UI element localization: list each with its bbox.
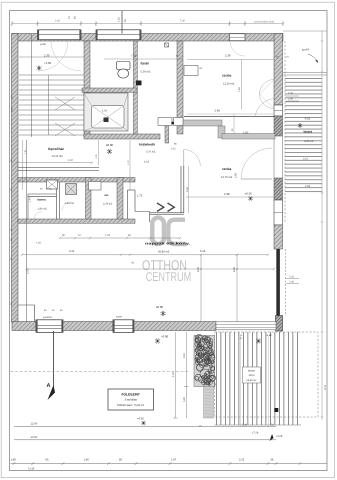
svg-text:1.40: 1.40	[10, 107, 13, 112]
svg-text:13,76 m2: 13,76 m2	[221, 176, 233, 179]
bottom wall seg2	[63, 322, 113, 331]
staircase steps	[19, 75, 84, 135]
svg-text:+0.00: +0.00	[161, 335, 169, 339]
radiator szoba1	[184, 66, 198, 76]
corner pillar	[276, 316, 283, 332]
dim x241.5	[241, 60, 243, 110]
kitchen wall step	[181, 120, 275, 139]
kamra right wall	[56, 184, 58, 219]
door arc szoba2	[184, 150, 201, 167]
boiler square	[47, 180, 58, 189]
svg-text:1.50: 1.50	[238, 87, 241, 92]
svg-text:terasz: terasz	[304, 130, 313, 134]
terasz bottom decking	[215, 332, 302, 425]
mosdo right wall	[86, 178, 92, 223]
svg-text:1.86: 1.86	[11, 459, 17, 462]
svg-text:pm90: pm90	[116, 316, 122, 319]
svg-text:-0.02: -0.02	[304, 118, 311, 121]
top dim line	[12, 23, 283, 25]
L step left	[18, 305, 35, 322]
wc right wall	[117, 178, 123, 223]
svg-text:6,60 m2: 6,60 m2	[304, 140, 314, 143]
svg-text:5.20: 5.20	[183, 397, 186, 402]
foldszint box	[108, 389, 154, 410]
svg-text:17.28: 17.28	[252, 432, 259, 435]
door arc pier	[255, 98, 276, 117]
bottom dim lines	[14, 426, 276, 428]
terasz side decking	[285, 76, 322, 193]
svg-text:14.35: 14.35	[28, 468, 35, 471]
svg-text:1,96 m2: 1,96 m2	[38, 208, 48, 211]
svg-text:2.38: 2.38	[224, 192, 230, 196]
szoba2 left wall	[180, 166, 182, 213]
svg-text:1.50: 1.50	[288, 92, 294, 95]
terasz label box	[243, 367, 261, 383]
svg-text:fürdő: fürdő	[141, 62, 149, 66]
sliding door	[216, 322, 276, 330]
wc outer wall	[127, 190, 129, 222]
svg-text:2.35: 2.35	[118, 17, 121, 22]
svg-text:1.78: 1.78	[105, 234, 110, 237]
svg-text:terasz: terasz	[248, 370, 256, 373]
svg-text:4.00: 4.00	[197, 266, 200, 272]
dim line y255	[22, 254, 268, 256]
kamra door	[34, 219, 42, 223]
svg-text:13.00: 13.00	[31, 436, 38, 439]
svg-text:2.40: 2.40	[289, 281, 294, 284]
svg-text:2.55: 2.55	[186, 187, 189, 192]
terrace door swing	[241, 148, 272, 179]
svg-text:2.98: 2.98	[305, 185, 311, 188]
duct block	[136, 81, 142, 86]
rooms row bottom wall	[18, 219, 135, 223]
svg-text:szoba: szoba	[222, 167, 232, 171]
right wall pier 2	[274, 178, 283, 200]
left vertical dim line	[22, 140, 24, 190]
svg-text:1.52: 1.52	[172, 372, 175, 377]
shower square	[84, 93, 128, 131]
stair landing line	[19, 56, 84, 58]
chevron arrows	[157, 203, 174, 211]
marker square	[274, 408, 278, 412]
dim line y269	[27, 268, 275, 270]
svg-text:4.00: 4.00	[233, 266, 236, 272]
svg-text:4.70: 4.70	[324, 384, 327, 390]
svg-text:pm90: pm90	[40, 43, 47, 46]
terasz boundary lines	[283, 71, 327, 73]
svg-text:5.18: 5.18	[200, 250, 206, 253]
svg-text:±0.00: ±0.00	[106, 143, 113, 147]
svg-text:kamra: kamra	[38, 198, 47, 202]
svg-text:1.86: 1.86	[84, 459, 90, 462]
corridor wall	[165, 125, 169, 143]
svg-text:+4.60: +4.60	[266, 334, 273, 337]
right wall window 2	[274, 200, 283, 225]
watermark OC logo	[152, 218, 186, 244]
svg-text:+0.05: +0.05	[137, 418, 144, 421]
mosdo door arc	[62, 202, 71, 211]
wc fixture	[89, 182, 102, 191]
svg-text:4.32: 4.32	[69, 250, 75, 253]
washing machine	[66, 184, 77, 195]
svg-text:2.41: 2.41	[289, 276, 294, 279]
svg-text:2.10: 2.10	[303, 158, 309, 161]
svg-text:±0.05: ±0.05	[245, 193, 252, 196]
terrace door opening	[273, 136, 275, 178]
left wall	[12, 34, 19, 323]
svg-text:nappali étk.kony.: nappali étk.kony.	[145, 242, 190, 246]
svg-text:4.02: 4.02	[68, 159, 73, 162]
tall dark window frame	[276, 249, 280, 316]
svg-text:1.15: 1.15	[95, 154, 98, 159]
right wall lower	[274, 225, 283, 249]
svg-text:2.12: 2.12	[171, 148, 176, 151]
mid wall y134	[84, 134, 160, 139]
svg-text:3.70: 3.70	[27, 269, 30, 274]
right wall pier	[274, 116, 283, 136]
svg-text:FÖLDSZINT: FÖLDSZINT	[121, 393, 140, 397]
svg-text:2.39: 2.39	[225, 54, 231, 58]
svg-text:85: 85	[119, 459, 122, 462]
dashed boundary	[11, 371, 191, 373]
gravel strip	[204, 387, 214, 419]
svg-text:3.98: 3.98	[215, 110, 221, 113]
szoba divider line	[184, 116, 274, 118]
svg-text:7.42: 7.42	[131, 54, 137, 58]
svg-text:12.60: 12.60	[31, 423, 38, 426]
right wall upper	[274, 34, 283, 106]
vertical dim x186	[185, 332, 187, 418]
bottom window D2	[113, 320, 134, 333]
svg-text:szoba: szoba	[222, 74, 232, 78]
dim line y114	[187, 113, 274, 115]
dim 2.41 right	[286, 278, 299, 280]
bottom wall seg3	[134, 322, 216, 331]
svg-text:CENTRUM: CENTRUM	[146, 269, 192, 284]
svg-text:2.00: 2.00	[235, 172, 238, 178]
doorway step	[135, 212, 150, 223]
svg-text:+0.05: +0.05	[276, 435, 283, 438]
toilet	[117, 62, 131, 70]
svg-text:2.42: 2.42	[55, 20, 60, 23]
svg-text:56,80 m2: 56,80 m2	[158, 251, 170, 254]
svg-text:pm90/tm: pm90/tm	[43, 316, 52, 319]
section line A	[53, 331, 55, 390]
svg-text:közlekedő: közlekedő	[139, 143, 155, 147]
svg-text:2.30: 2.30	[44, 54, 50, 58]
stair hall right wall	[84, 41, 90, 137]
dim x130	[129, 140, 131, 190]
bath divider wall	[82, 88, 137, 92]
window W2	[96, 30, 141, 40]
svg-text:1.31: 1.31	[24, 149, 27, 154]
svg-text:1.90: 1.90	[243, 132, 249, 135]
mark bottom right arrow	[270, 434, 274, 441]
window W3	[230, 34, 246, 41]
left inner face	[26, 140, 28, 322]
bottom dim row	[11, 463, 328, 465]
lepcsohaz south wall	[18, 167, 99, 169]
W3 arc	[230, 41, 245, 56]
bath right wall	[177, 41, 183, 134]
svg-text:±0.00: ±0.00	[156, 305, 163, 309]
svg-text:2,78 m2: 2,78 m2	[103, 203, 113, 206]
svg-text:1.43: 1.43	[29, 197, 32, 202]
dim line x175	[174, 332, 176, 418]
svg-text:A: A	[47, 383, 51, 389]
svg-text:1.97: 1.97	[171, 459, 177, 462]
svg-text:1.70: 1.70	[127, 160, 130, 165]
chimney mark	[165, 43, 169, 47]
vertical dims x201 x237	[200, 255, 202, 322]
svg-text:49/13: 49/13	[249, 374, 256, 377]
svg-text:lépcsőház: lépcsőház	[48, 147, 64, 151]
svg-text:56,60 m2: 56,60 m2	[247, 379, 258, 382]
section mark top	[121, 11, 123, 34]
window W1	[38, 30, 82, 40]
svg-text:1.18: 1.18	[144, 161, 150, 164]
kitchen counter	[158, 118, 172, 126]
bottom wall seg1	[12, 322, 36, 331]
svg-text:1.75: 1.75	[137, 195, 143, 198]
bottom door D1	[36, 320, 63, 333]
landing door arcs	[38, 41, 68, 71]
svg-text:.39: .39	[270, 459, 274, 462]
dim x188	[188, 166, 190, 213]
dim 4.02 line	[18, 162, 92, 164]
svg-text:12,16 m2: 12,16 m2	[223, 83, 235, 86]
dim line y238	[60, 237, 180, 239]
svg-text:1.00: 1.00	[10, 95, 13, 100]
svg-text:1.28: 1.28	[36, 242, 41, 245]
stair cross marks	[55, 97, 75, 136]
svg-text:+1.50: +1.50	[44, 61, 52, 65]
svg-text:2.25: 2.25	[239, 459, 245, 462]
svg-text:85: 85	[46, 459, 49, 462]
svg-text:szomszédos lakás: szomszédos lakás	[254, 21, 275, 24]
door arcs szoba1 terrace door	[260, 80, 275, 95]
svg-text:3-as lakás: 3-as lakás	[125, 399, 138, 402]
top wall	[12, 34, 283, 42]
terasz dashed border	[215, 332, 319, 417]
right wall window	[274, 105, 283, 116]
svg-text:5,36 m2: 5,36 m2	[141, 71, 151, 74]
kamra left wall	[27, 194, 29, 219]
kamra top wall	[28, 193, 57, 195]
svg-text:1.50: 1.50	[102, 110, 108, 113]
svg-text:2.48: 2.48	[242, 424, 247, 427]
svg-text:2.10: 2.10	[183, 353, 186, 358]
mark 0.00 bottom	[155, 338, 160, 343]
svg-text:wc.: wc.	[104, 193, 110, 197]
dim x98.5	[98, 140, 100, 165]
rooms row top wall	[18, 178, 135, 183]
planting bed	[194, 336, 215, 387]
svg-text:5,70 m2: 5,70 m2	[146, 151, 156, 154]
svg-text:1,34 m2: 1,34 m2	[65, 202, 75, 205]
bath left wall	[134, 41, 138, 135]
svg-text:2.40: 2.40	[288, 98, 294, 101]
svg-text:13,16 m2: 13,16 m2	[52, 155, 64, 158]
svg-text:7.42: 7.42	[180, 20, 185, 23]
svg-text:Fűthető alapt.: 76,53 m2: Fűthető alapt.: 76,53 m2	[117, 404, 145, 407]
